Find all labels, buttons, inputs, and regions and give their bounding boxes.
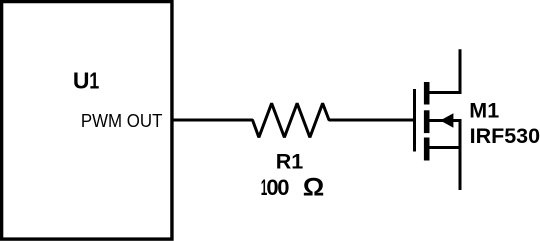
svg-text:Ω: Ω [303,174,325,201]
svg-text:IRF530: IRF530 [470,124,540,148]
svg-text:100: 100 [261,175,290,200]
svg-text:R1: R1 [276,150,304,174]
svg-text:PWM OUT: PWM OUT [81,111,162,131]
svg-text:U1: U1 [73,68,99,94]
svg-text:M1: M1 [469,98,499,122]
